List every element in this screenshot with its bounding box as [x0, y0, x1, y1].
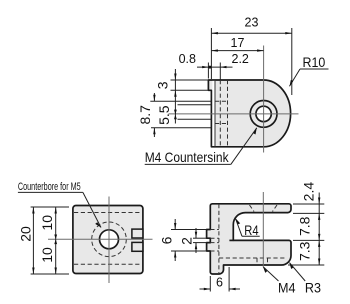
hole inner circle — [256, 106, 271, 121]
dim 5.5 diamond arrows — [174, 110, 177, 115]
R10 underline — [300, 68, 329, 70]
hidden dashed lines — [210, 204, 287, 274]
dim 2.4 arrows — [318, 198, 320, 205]
svg-text:R10: R10 — [303, 55, 326, 71]
dim 17 line — [211, 50, 263, 52]
dim 0.8 / 2.2 line — [197, 66, 233, 68]
M4 Countersink underline — [145, 163, 231, 165]
dim 2.2 arrow — [220, 66, 226, 68]
Counterbore underline — [18, 191, 83, 193]
dim 6 bottom extension/dimension lines — [200, 267, 241, 292]
svg-text:R4: R4 — [244, 223, 258, 238]
vertical hole centerline — [262, 192, 264, 266]
clamp body outline — [207, 204, 291, 274]
front body square — [73, 206, 143, 274]
svg-text:7.3: 7.3 — [297, 241, 313, 261]
svg-text:6: 6 — [159, 236, 175, 244]
R4 underline — [242, 235, 260, 237]
white strip behind flange — [212, 81, 214, 146]
svg-text:R3: R3 — [305, 280, 321, 296]
dim 23 lines — [211, 28, 291, 95]
M5 hole circle — [100, 230, 119, 249]
dim 20 arrows — [32, 207, 34, 214]
R3 leader — [290, 263, 306, 281]
M4 Countersink leader arrowhead — [253, 128, 257, 135]
dim 0.8 arrow — [202, 66, 208, 68]
body outline P-shape with 0.8 flange tab — [208, 80, 290, 147]
dim 20 extension and dimension lines — [31, 207, 69, 274]
dim 10/10 arrows — [55, 207, 57, 214]
R10 label text — [303, 55, 326, 71]
dim 6 bottom arrows — [204, 288, 211, 290]
M4 Countersink leader — [231, 128, 257, 165]
bottom arm top edge stub — [229, 239, 233, 241]
M4 label text — [278, 280, 295, 296]
svg-text:7.8: 7.8 — [296, 216, 312, 236]
svg-text:8.7: 8.7 — [137, 105, 153, 125]
M4 leader — [263, 267, 279, 282]
dim 3 arrows — [174, 74, 176, 81]
right edge slot lower — [132, 242, 143, 251]
dim 2 arrows — [195, 232, 197, 239]
svg-text:2.2: 2.2 — [232, 52, 249, 66]
2.2 extension line — [219, 63, 221, 80]
countersink outer circle — [250, 101, 277, 128]
M4 Countersink label text — [145, 149, 229, 165]
dim 8.7 dimension line segments — [153, 93, 155, 101]
svg-text:0.8: 0.8 — [179, 52, 196, 66]
svg-text:10: 10 — [39, 247, 55, 263]
dim 3 / 5.5 dimension line — [174, 69, 176, 124]
svg-text:Counterbore for M5: Counterbore for M5 — [18, 180, 81, 192]
svg-text:10: 10 — [39, 215, 55, 231]
R4 label text — [244, 223, 258, 238]
Counterbore leader arrowhead — [95, 222, 101, 227]
dim 2 extension/dimension lines — [193, 228, 207, 253]
horizontal centerline — [48, 238, 153, 240]
horizontal centerline — [169, 113, 299, 115]
svg-text:6: 6 — [216, 276, 223, 290]
svg-text:5.5: 5.5 — [156, 105, 172, 125]
hidden dashed lines inside body — [215, 80, 228, 147]
dim 23 arrows — [211, 32, 218, 34]
R4 leader — [236, 219, 243, 237]
dim 0.8 dot — [208, 66, 211, 69]
hidden dashed lines and counterbore circle — [74, 213, 142, 265]
vertical centerline — [263, 46, 265, 153]
R10 leader — [290, 69, 301, 86]
svg-text:3: 3 — [155, 81, 171, 89]
svg-text:17: 17 — [231, 36, 245, 50]
Counterbore for M5 label text — [18, 180, 81, 192]
Counterbore leader — [83, 192, 101, 227]
svg-text:2.4: 2.4 — [301, 182, 317, 202]
dim 8.7 arrows — [153, 95, 155, 102]
dim 7.8/7.3 arrows — [318, 234, 320, 241]
left stack extension lines — [150, 80, 211, 128]
svg-text:M4 Countersink: M4 Countersink — [145, 149, 229, 165]
dim 6 left arrows — [174, 223, 176, 230]
flange-left extension line — [207, 63, 209, 79]
flange inner edge line — [214, 80, 216, 147]
R3 leader arrowhead — [289, 262, 293, 269]
svg-text:20: 20 — [17, 226, 33, 242]
right edge slot upper — [132, 229, 143, 238]
svg-text:23: 23 — [245, 16, 259, 30]
R3 label text — [305, 280, 321, 296]
R4 leader arrowhead — [235, 218, 240, 224]
dim 17 arrows — [211, 49, 218, 51]
svg-text:M4: M4 — [278, 280, 295, 296]
dim 6 left extension/dimension lines — [171, 219, 207, 261]
R10 leader arrowhead — [290, 80, 294, 87]
svg-text:2: 2 — [178, 237, 194, 245]
M4 leader arrowhead — [263, 267, 267, 273]
right stack extension/dimension lines — [288, 193, 324, 266]
vertical centerline — [108, 197, 110, 284]
